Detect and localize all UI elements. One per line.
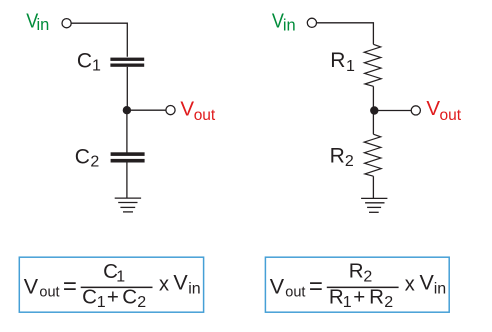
formula right x Vin — [405, 270, 446, 297]
formula box left border — [19, 257, 203, 312]
svg-text:C: C — [77, 50, 92, 73]
svg-text:in: in — [283, 16, 296, 34]
svg-text:x: x — [405, 273, 415, 295]
svg-text:R: R — [349, 260, 364, 283]
svg-text:out: out — [285, 285, 305, 301]
wire Vin to R1 — [317, 23, 374, 45]
label C2 — [75, 146, 100, 171]
svg-text:1: 1 — [92, 57, 101, 74]
node Vout (left) label — [180, 97, 216, 124]
svg-text:in: in — [434, 280, 446, 297]
formula right fraction bar — [327, 287, 399, 289]
svg-text:R: R — [329, 285, 344, 308]
formula right numerator R2 — [349, 260, 373, 286]
capacitor C1 — [110, 58, 144, 67]
capacitor C2 — [111, 152, 145, 162]
svg-text:=: = — [63, 273, 77, 300]
wire R2 to ground (right) — [372, 176, 374, 198]
formula right Vout — [270, 275, 306, 301]
node A junction (left) — [123, 106, 131, 114]
svg-text:C: C — [82, 286, 97, 309]
formula left denominator C1 + C2 — [82, 286, 146, 311]
svg-text:2: 2 — [345, 153, 354, 170]
formula left fraction bar — [81, 287, 153, 289]
wire R1 to node B — [372, 86, 374, 107]
svg-text:1: 1 — [116, 268, 125, 285]
formula box right border — [265, 257, 449, 312]
svg-text:C: C — [75, 146, 90, 169]
svg-text:R: R — [330, 49, 345, 72]
formula left numerator C1 — [103, 260, 125, 285]
svg-text:V: V — [426, 97, 440, 120]
svg-text:V: V — [24, 275, 39, 299]
svg-text:=: = — [309, 273, 323, 300]
ground (left) — [115, 198, 141, 212]
formula right denominator R1 + R2 — [329, 285, 393, 311]
wire node B to Vout terminal (right) — [374, 110, 411, 112]
svg-text:in: in — [37, 16, 50, 34]
svg-text:C: C — [122, 286, 137, 309]
resistor R2 — [364, 134, 381, 176]
formula left Vout — [24, 275, 60, 301]
svg-text:V: V — [270, 275, 285, 299]
terminal Vout (left) — [166, 106, 175, 115]
svg-text:V: V — [173, 270, 188, 294]
svg-text:x: x — [159, 273, 169, 295]
wire C1 to node A — [126, 67, 128, 107]
svg-text:2: 2 — [363, 269, 372, 286]
svg-text:1: 1 — [97, 294, 106, 311]
svg-text:R: R — [369, 285, 384, 308]
terminal Vin (left) — [62, 19, 71, 28]
svg-text:out: out — [440, 107, 462, 124]
svg-text:out: out — [194, 107, 216, 124]
svg-text:out: out — [39, 285, 59, 301]
formula left x Vin — [159, 270, 201, 297]
node Vin (right) label — [272, 11, 296, 35]
wire node A to C2 — [126, 113, 128, 153]
terminal Vout (right) — [411, 106, 420, 115]
svg-text:2: 2 — [90, 154, 99, 171]
svg-text:V: V — [180, 97, 194, 120]
terminal Vin (right) — [307, 18, 316, 27]
svg-text:R: R — [330, 145, 345, 168]
label R2 — [330, 145, 354, 170]
wire Vin to C1 (left) — [71, 23, 127, 57]
node B junction (right) — [370, 106, 378, 114]
resistor R1 — [364, 44, 381, 86]
wire node A to Vout terminal (left) — [127, 109, 166, 111]
wire node B to R2 — [372, 113, 374, 134]
label R1 — [330, 49, 355, 75]
label C1 — [77, 50, 101, 75]
ground (right) — [361, 198, 387, 212]
node Vout (right) label — [426, 97, 461, 124]
svg-text:V: V — [420, 270, 435, 294]
svg-text:2: 2 — [137, 294, 146, 311]
svg-text:+: + — [353, 285, 365, 308]
svg-text:1: 1 — [343, 294, 352, 311]
svg-text:1: 1 — [346, 58, 355, 75]
node Vin (left) label — [26, 10, 49, 34]
wire C2 to ground (left) — [126, 163, 128, 199]
svg-text:in: in — [188, 280, 200, 297]
svg-text:2: 2 — [384, 294, 393, 311]
svg-text:+: + — [107, 286, 119, 309]
